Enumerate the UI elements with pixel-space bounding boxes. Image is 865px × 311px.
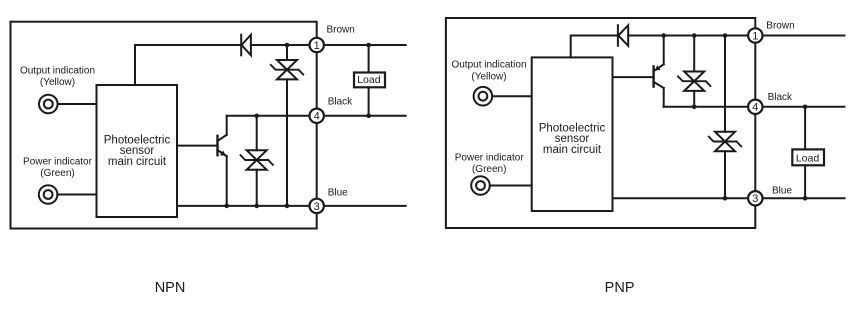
wire: yellow lamp to main circuit (NPN) <box>58 103 97 105</box>
junction: load bottom on black line (NPN) <box>366 114 371 119</box>
junction: zener ZD2 top on black line (NPN) <box>254 114 259 119</box>
transistor Q1 NPN output <box>177 116 227 206</box>
svg-text:Blue: Blue <box>328 188 348 199</box>
svg-text:(Yellow): (Yellow) <box>40 77 75 88</box>
terminal 4 (PNP black) <box>748 100 762 114</box>
junction: load top on brown line (NPN) <box>366 43 371 48</box>
power indicator lamp (Green) PNP <box>455 152 525 195</box>
wire: black tail (PNP) <box>763 106 845 108</box>
transistor Q1 PNP output <box>613 36 664 107</box>
zener ZD2 surge absorber (PNP) <box>709 36 741 199</box>
output indication lamp (Yellow) PNP <box>451 60 526 106</box>
svg-text:(Yellow): (Yellow) <box>471 71 506 82</box>
power indicator lamp (Green) NPN <box>23 157 93 204</box>
wire: green lamp to main circuit (PNP) <box>490 185 532 187</box>
junction: zener ZD2 bottom on blue line (PNP) <box>723 196 728 201</box>
svg-text:Power indicator: Power indicator <box>455 152 525 163</box>
svg-text:1: 1 <box>314 40 320 52</box>
junction: zener ZD1 top on brown line (PNP) <box>692 33 697 38</box>
svg-text:4: 4 <box>314 111 320 123</box>
load (NPN) <box>354 45 385 116</box>
svg-text:Black: Black <box>768 92 793 103</box>
wire: diode to terminal 1 (NPN brown line) <box>251 44 310 46</box>
svg-text:(Green): (Green) <box>40 168 74 179</box>
wire: main circuit top to supply line (NPN) <box>135 45 241 85</box>
junction: zener ZD2 bottom on blue line (NPN) <box>254 204 259 209</box>
NPN sensor outer enclosure box <box>11 22 317 229</box>
wire: main circuit to terminal 3 (NPN blue line) <box>177 205 310 207</box>
wire: collector to terminal 4 (PNP black line) <box>664 106 748 108</box>
wire: diode to terminal 1 (PNP brown line) <box>628 35 748 37</box>
terminal 3 (NPN blue) <box>310 199 324 213</box>
svg-text:main circuit: main circuit <box>543 144 602 156</box>
junction: emitter on brown line (PNP) <box>661 33 666 38</box>
junction: zener ZD1 bottom on black line (PNP) <box>692 105 697 110</box>
svg-text:PNP: PNP <box>605 280 635 296</box>
svg-text:1: 1 <box>752 30 758 42</box>
diode D1 reverse-protection (PNP) <box>618 25 628 46</box>
svg-text:Output indication: Output indication <box>20 66 95 77</box>
svg-text:Brown: Brown <box>766 21 794 32</box>
svg-text:(Green): (Green) <box>472 164 506 175</box>
svg-text:Load: Load <box>357 74 381 86</box>
wire: brown tail (PNP) <box>763 35 845 37</box>
svg-text:4: 4 <box>752 102 758 114</box>
wire: brown tail (NPN) <box>324 44 406 46</box>
terminal 3 (PNP blue) <box>748 191 762 205</box>
wire: yellow lamp to main circuit (PNP) <box>492 95 532 97</box>
svg-text:Black: Black <box>328 96 353 107</box>
terminal 1 (PNP brown) <box>748 28 762 42</box>
load (PNP) <box>792 107 824 199</box>
terminal 1 (NPN brown) <box>310 38 324 52</box>
svg-text:NPN: NPN <box>155 280 186 296</box>
svg-text:Output indication: Output indication <box>451 60 526 71</box>
svg-text:Power indicator: Power indicator <box>23 157 93 168</box>
photoelectric sensor main circuit block (PNP) <box>532 57 613 211</box>
svg-text:3: 3 <box>314 201 320 213</box>
svg-text:3: 3 <box>752 193 758 205</box>
junction: load bottom on blue line (PNP) <box>803 196 808 201</box>
junction: zener ZD1 top on brown line (NPN) <box>285 43 290 48</box>
svg-text:Brown: Brown <box>327 24 355 35</box>
junction: zener ZD1 bottom on blue line (NPN) <box>285 204 290 209</box>
wire: blue tail (PNP) <box>763 197 845 199</box>
output indication lamp (Yellow) NPN <box>20 66 95 114</box>
svg-text:Blue: Blue <box>772 186 792 197</box>
PNP sensor outer enclosure box <box>446 18 755 228</box>
junction: load top on black line (PNP) <box>803 105 808 110</box>
wire: main circuit top to supply line (PNP) <box>571 36 618 58</box>
wire: main circuit to terminal 3 (PNP blue line) <box>613 197 749 199</box>
photoelectric sensor main circuit block (NPN) <box>97 85 178 217</box>
svg-text:Load: Load <box>796 153 820 165</box>
junction: zener ZD2 top on brown line (PNP) <box>723 33 728 38</box>
wire: black tail (NPN) <box>324 115 406 117</box>
zener ZD2 output protection (NPN) <box>241 116 273 206</box>
wire: collector to terminal 4 (NPN black line) <box>227 115 310 117</box>
zener ZD1 surge absorber across supply (NPN) <box>271 45 303 206</box>
zener ZD1 across transistor (PNP) <box>678 36 710 107</box>
wire: green lamp to main circuit (NPN) <box>57 194 96 196</box>
junction: emitter on blue line (NPN) <box>224 204 229 209</box>
diode D1 reverse-protection (NPN) <box>241 35 251 56</box>
wire: blue tail (NPN) <box>324 205 406 207</box>
svg-text:main circuit: main circuit <box>108 156 167 168</box>
terminal 4 (NPN black) <box>310 109 324 123</box>
